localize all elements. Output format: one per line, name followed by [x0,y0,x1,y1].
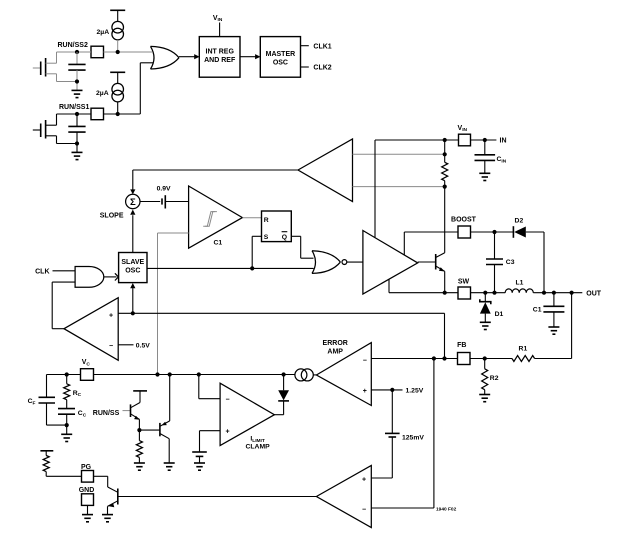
ground under SS1 cap [72,152,83,159]
wire RUN/SS2 net [57,51,153,53]
wire VIN to INT REG [219,23,221,37]
wire sense input bottom [353,186,445,188]
node VC junctions [65,372,286,376]
ground under CC [61,434,72,441]
MOSFET M2 (RUN/SS2 pulldown) [33,52,77,82]
block INT REG AND REF [199,37,240,78]
transistor Q4 (PG NPN) [108,487,118,515]
svg-text:2µA: 2µA [97,29,110,36]
pin CLK1 [301,43,332,50]
resistor current sense [442,140,448,253]
pin FB [457,342,470,364]
svg-text:CLK: CLK [35,268,49,275]
OR gate U1 (run comparator) [151,46,180,69]
wire 0.5V reference [118,342,150,349]
block MASTER OSC [260,37,300,78]
battery 125mV [371,390,424,478]
label figure number [436,507,457,513]
pin PG [81,464,94,482]
wire VC line [47,374,317,376]
pin CLK2 [301,65,332,72]
wire PG comparator output to Q4 base [118,496,317,498]
svg-text:IN: IN [500,138,507,145]
wire driver bottom to SW [389,279,458,292]
svg-text:AMP: AMP [327,348,343,355]
wire OUT to R1 [535,293,572,359]
supply rail for 2uA source 2 [110,72,125,83]
wire BOOST node [471,230,514,234]
current source 2uA (RUN/SS2) [97,21,124,52]
svg-text:−: − [109,343,113,350]
svg-text:CLK2: CLK2 [313,65,331,72]
svg-text:1.25V: 1.25V [406,388,424,395]
svg-text:+: + [225,429,229,436]
label CLK [35,268,49,275]
wire driver output to Q1 base [418,261,436,263]
node SS2 bottom junction [75,79,79,83]
svg-text:−: − [363,357,367,364]
wire FB to PG comparator [371,359,434,509]
wire VC to C1 inverting input [158,233,189,375]
resistor RC [64,375,82,409]
pin RUN/SS1 [59,104,104,120]
ground under R2 [479,395,490,402]
svg-text:C1: C1 [214,239,223,246]
node foldback junction [131,311,135,315]
svg-text:C1: C1 [533,306,542,313]
wire FB to foldback comparator [118,313,444,358]
ground under SS2 cap [72,90,83,97]
svg-text:R2: R2 [490,375,499,382]
capacitor soft-start 1 [68,114,85,152]
wire VIN to IN [471,138,507,145]
svg-text:MASTER: MASTER [266,51,296,58]
wire foldback comp output to AND [52,282,75,329]
wire INT REG to MASTER OSC arrow [240,54,261,59]
svg-text:−: − [225,397,229,404]
pin RUN/SS2 [58,42,104,58]
ground under CIN [479,173,490,180]
resistor PG pull-up [43,456,81,477]
node compensation ground junction [65,423,69,427]
ground under Q3 [164,463,175,470]
block SLAVE OSC [119,253,147,283]
wire SW output line [471,292,583,294]
op-amp current sense amplifier [298,139,353,202]
capacitor C3 (boost) [486,232,515,293]
ground under D1 [480,322,491,329]
RS flip-flop U2 [262,211,292,242]
capacitor CF [28,375,67,426]
node RUN/SS2 junction [75,50,120,54]
label SLOPE [100,212,124,219]
pin VC [81,359,94,380]
NOR gate U3 [312,251,347,274]
node Q2 emitter junction [137,428,160,432]
svg-text:Q: Q [282,234,287,241]
wire AND output to slave osc [104,273,119,280]
op-amp ILIMIT clamp [220,383,274,450]
battery 0.9V [140,186,189,209]
svg-text:RUN/SS: RUN/SS [93,410,120,417]
svg-text:AND REF: AND REF [204,57,236,64]
wire slave osc clock line [147,267,314,269]
svg-text:125mV: 125mV [402,435,424,442]
node SW line junctions [483,291,496,295]
op-amp foldback comparator [64,298,118,361]
label OUT [586,290,602,297]
wire C1 output to R [242,217,261,219]
wire CLK to AND gate [53,270,76,272]
diode D2 (boost) [513,218,544,293]
op-amp switch driver [363,231,418,295]
supply rail PG pull-up [40,451,53,456]
svg-text:OSC: OSC [125,268,140,275]
op-amp C1 (PWM comparator) [189,186,243,248]
svg-text:0.9V: 0.9V [157,186,171,193]
svg-text:0.5V: 0.5V [136,342,150,349]
wire sense input top [353,153,445,155]
wire Q-bar to NOR gate [291,236,313,258]
node emitter to SW junction [443,291,447,295]
svg-text:1940 F02: 1940 F02 [436,507,457,513]
wire 1.25V reference [371,388,423,395]
wire slave osc to summer (slope ramp) [130,210,135,253]
svg-text:−: − [362,507,366,514]
ground under C1 [548,327,559,334]
MOSFET M1 (RUN/SS1 pulldown) [33,114,77,144]
diode D1 (catch schottky) [480,293,504,323]
ground under clamp battery [194,463,205,470]
pin BOOST [451,217,477,238]
supply rail Q2 collector [133,391,147,403]
transistor Q1 (power NPN) [436,253,445,293]
svg-text:D2: D2 [515,218,524,225]
AND gate U4 [75,267,104,288]
wire FB node [470,356,512,360]
wire sense amp output to summer [130,170,298,194]
supply rail for 2uA source 1 [110,10,125,21]
capacitor soft-start 2 [68,52,85,90]
wire VC to clamp inverting input [199,375,220,399]
svg-text:OUT: OUT [586,290,602,297]
svg-text:FB: FB [457,342,466,349]
node VIN junction [443,138,447,142]
current source 2uA (RUN/SS1) [96,83,123,114]
wire RUN/SS to Q2 base [123,410,131,412]
wire S input from slave clock line [252,236,261,268]
svg-text:GND: GND [79,487,95,494]
svg-text:2µA: 2µA [96,90,109,97]
svg-text:R: R [264,217,269,224]
label VIN (top) [213,15,223,23]
ground under GND pin [82,515,93,522]
pin GND [79,487,95,515]
svg-text:+: + [109,312,113,319]
svg-text:CLK1: CLK1 [313,43,331,50]
svg-text:R1: R1 [519,346,528,353]
wire OR output arrow [179,54,200,59]
pin SW [458,279,471,299]
resistor R1 [512,346,535,362]
capacitor CIN [475,140,507,173]
svg-text:BOOST: BOOST [451,217,477,224]
wire error amp inverting to FB [371,356,457,360]
svg-text:RUN/SS2: RUN/SS2 [58,42,88,49]
ground under Q2 resistor [134,463,145,470]
resistor R2 [482,359,499,395]
svg-text:S: S [264,234,269,241]
transistor Q3 (PNP clamp) [160,375,170,464]
ground under Q4 emitter [102,515,113,522]
summing node (sigma) [126,194,140,208]
svg-text:INT REG: INT REG [206,49,235,56]
svg-text:RUN/SS1: RUN/SS1 [59,104,89,111]
wire clamp output [274,401,283,415]
node S tap junction [250,266,254,270]
svg-text:C3: C3 [506,259,515,266]
svg-text:OSC: OSC [273,60,288,67]
inductor L1 [505,280,533,293]
label RUN/SS [93,410,120,417]
svg-text:ERROR: ERROR [323,340,348,347]
node OUT line junctions [542,291,574,295]
node SS1 bottom junction [75,141,79,145]
op-amp PG comparator [316,466,371,528]
transistor Q2 (NPN follower) [131,403,141,431]
pin VIN [458,125,471,146]
node sense resistor taps [443,152,447,189]
wire BOOST to driver top [404,232,458,255]
svg-text:SW: SW [458,279,470,286]
op-amp error amplifier [316,340,371,405]
svg-text:Σ: Σ [130,197,136,208]
capacitor C1 (output) [533,293,565,327]
current source error amp output [295,369,313,381]
wire VIN rail to driver [375,140,459,238]
wire foldback node to slave osc [130,283,135,313]
wire RUN/SS1 net [57,63,154,114]
svg-text:L1: L1 [516,280,524,287]
svg-text:+: + [363,388,367,395]
node RUN/SS1 junction [75,112,120,116]
wire PG to Q4 collector [94,476,108,487]
svg-text:+: + [362,476,366,483]
wire NOR output to driver [347,261,363,263]
resistor Q2 emitter [136,430,142,463]
diode clamp (to VC) [278,375,289,401]
svg-text:CLAMP: CLAMP [246,443,271,450]
svg-text:SLOPE: SLOPE [100,212,124,219]
svg-text:D1: D1 [495,311,504,318]
battery clamp reference [192,431,220,463]
capacitor CC [58,409,87,435]
svg-text:SLAVE: SLAVE [121,259,144,266]
